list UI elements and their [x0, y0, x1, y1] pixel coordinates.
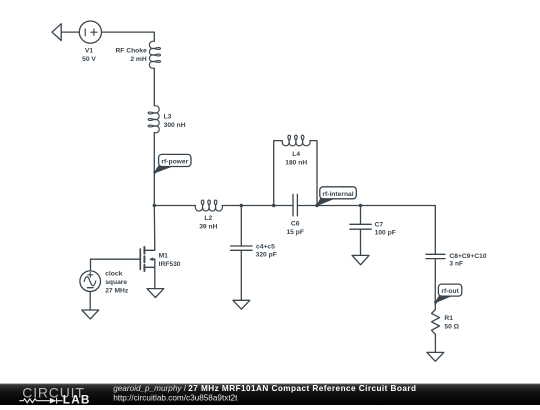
svg-text:2 mH: 2 mH	[130, 56, 147, 63]
ground (left, rotated, at V1 negative terminal)	[52, 24, 61, 41]
svg-text:L4: L4	[292, 151, 300, 158]
flag rf-power	[153, 154, 191, 173]
node at C7 junction	[359, 204, 362, 207]
svg-text:15 pF: 15 pF	[286, 229, 303, 236]
svg-text:IRF530: IRF530	[159, 261, 181, 268]
wire	[240, 250, 242, 300]
ground (below clock)	[82, 310, 99, 319]
capacitor C8+C9+C10 3 nF	[426, 254, 445, 258]
wire (drain)	[145, 206, 155, 251]
flag rf-internal	[316, 187, 357, 207]
svg-text:C7: C7	[375, 221, 384, 228]
wire (L4 left leg)	[274, 141, 283, 206]
svg-text:gearoid_p_murphy / 27 MHz MRF1: gearoid_p_murphy / 27 MHz MRF101AN Compa…	[113, 384, 416, 393]
svg-text:R1: R1	[444, 315, 453, 322]
wire	[240, 206, 242, 247]
wire	[360, 229, 362, 255]
ground (below R1)	[427, 352, 444, 361]
svg-text:clock: clock	[105, 271, 122, 278]
wire	[434, 259, 436, 309]
wire	[102, 32, 155, 41]
CircuitLab logo	[19, 384, 90, 406]
inductor RF Choke 2 mH	[149, 41, 160, 68]
inductor L2 39 nH	[195, 200, 222, 211]
svg-text:rf-internal: rf-internal	[322, 191, 353, 198]
wire	[361, 206, 436, 255]
svg-text:180 nH: 180 nH	[285, 160, 307, 167]
transistor M1 IRF530	[140, 247, 155, 271]
inductor L3 300 nH	[148, 106, 159, 133]
wire	[154, 205, 195, 207]
capacitor c4+c5 320 pF	[231, 246, 252, 250]
capacitor C6 15 pF	[293, 194, 297, 216]
svg-text:C6: C6	[291, 221, 300, 228]
wire (L4 right leg)	[310, 141, 317, 206]
source clock square 27 MHz	[80, 271, 101, 292]
svg-text:RF Choke: RF Choke	[115, 48, 146, 55]
wire (gate lead)	[91, 259, 141, 271]
svg-text:L2: L2	[204, 215, 212, 222]
node at L4 left leg junction	[272, 204, 275, 207]
wire	[153, 68, 155, 106]
node at c4+c5 junction	[240, 204, 243, 207]
wire	[222, 205, 293, 207]
wire	[89, 292, 91, 311]
svg-text:rf-out: rf-out	[441, 288, 459, 295]
flag rf-out	[434, 284, 462, 304]
svg-text:3 nF: 3 nF	[449, 261, 463, 268]
capacitor C7 100 pF	[350, 224, 371, 229]
svg-text:50 Ω: 50 Ω	[444, 324, 459, 331]
svg-text:LAB: LAB	[63, 393, 91, 405]
ground (below M1 source)	[147, 289, 164, 298]
ground (below c4+c5)	[233, 300, 250, 309]
svg-text:M1: M1	[159, 253, 169, 260]
wire (source)	[154, 267, 156, 288]
svg-text:320 pF: 320 pF	[256, 252, 277, 259]
ground (below C7)	[352, 255, 369, 264]
svg-text:100 pF: 100 pF	[375, 230, 396, 237]
resistor R1 50 Ohm	[432, 310, 440, 335]
svg-text:http://circuitlab.com/c3u858a9: http://circuitlab.com/c3u858a9txt2t	[113, 393, 238, 402]
svg-text:27 MHz: 27 MHz	[105, 288, 129, 295]
wire	[61, 31, 79, 33]
node at L4 right leg / rf-internal junction	[315, 204, 318, 207]
svg-text:50 V: 50 V	[82, 56, 96, 63]
svg-text:39 nH: 39 nH	[199, 223, 217, 230]
svg-text:300 nH: 300 nH	[164, 122, 186, 129]
svg-text:V1: V1	[85, 48, 93, 55]
svg-text:square: square	[105, 279, 127, 286]
wire	[153, 133, 155, 206]
wire	[360, 206, 362, 225]
voltage source V1	[79, 21, 101, 43]
svg-text:c4+c5: c4+c5	[256, 243, 275, 250]
node at L3/L2/M1 drain junction	[153, 204, 156, 207]
wire	[297, 205, 360, 207]
svg-text:C8+C9+C10: C8+C9+C10	[449, 253, 486, 260]
inductor L4 180 nH	[282, 135, 310, 146]
wire	[434, 334, 436, 352]
svg-text:rf-power: rf-power	[161, 159, 188, 166]
svg-text:L3: L3	[164, 114, 172, 121]
